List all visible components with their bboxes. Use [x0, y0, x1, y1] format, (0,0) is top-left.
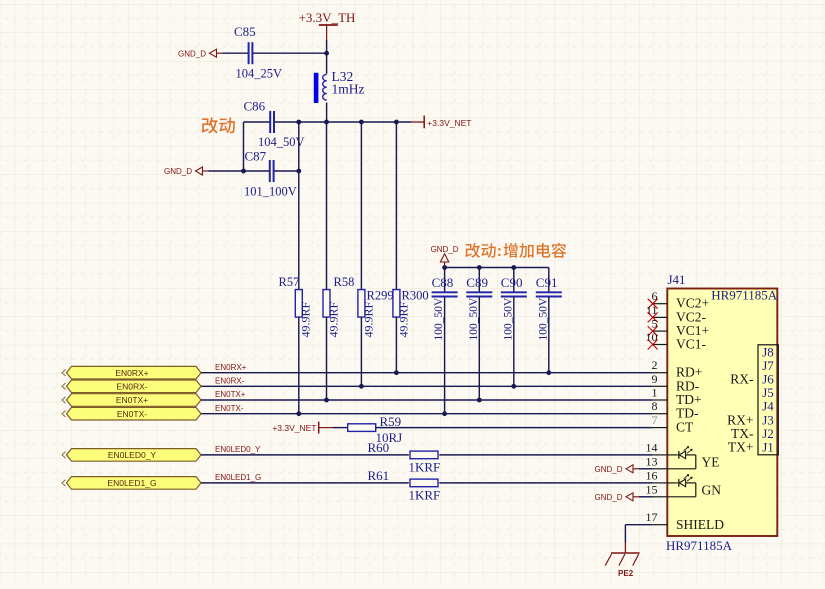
- annotation text 改动:增加电容 (orange): [465, 243, 566, 258]
- wire: [298, 317, 300, 414]
- svg-text:EN0TX-: EN0TX-: [117, 409, 147, 419]
- svg-text:1: 1: [652, 386, 658, 400]
- wire: [326, 317, 328, 400]
- svg-text:EN0RX-: EN0RX-: [116, 382, 147, 392]
- resistor R299: [358, 290, 365, 318]
- svg-text:7: 7: [652, 413, 658, 427]
- svg-text:R58: R58: [334, 275, 355, 289]
- svg-text:EN0TX+: EN0TX+: [215, 390, 246, 399]
- junction: [296, 169, 301, 174]
- junction: [394, 120, 399, 125]
- wire EN0TX+: [201, 399, 653, 401]
- port EN0RX-: [67, 380, 202, 393]
- svg-text:GND_D: GND_D: [178, 49, 206, 58]
- svg-text:8: 8: [652, 399, 658, 413]
- wire EN0RX-: [201, 385, 653, 387]
- wire: [201, 482, 409, 484]
- svg-text:EN0LED0_Y: EN0LED0_Y: [215, 445, 261, 454]
- junction: [477, 398, 482, 403]
- svg-text:1KRF: 1KRF: [409, 488, 441, 503]
- pin 6 (VC2+): [653, 303, 668, 305]
- svg-text:100_50V: 100_50V: [468, 297, 480, 341]
- resistor R57: [295, 290, 302, 318]
- wire: [298, 122, 300, 290]
- wire: [478, 297, 480, 400]
- svg-text:C87: C87: [245, 149, 267, 164]
- wire: [333, 427, 348, 429]
- wire: [513, 297, 515, 386]
- ground PE2: [624, 543, 626, 554]
- svg-text:R299: R299: [367, 289, 394, 303]
- LED GN: [667, 482, 678, 484]
- inner jack box: [758, 345, 778, 455]
- pin 11 (VC2-): [653, 316, 668, 318]
- junction: [359, 120, 364, 125]
- resistor R300: [393, 290, 400, 318]
- svg-text:R300: R300: [402, 289, 429, 303]
- junction: [296, 120, 301, 125]
- svg-text:GND_D: GND_D: [594, 493, 622, 502]
- wire: [625, 524, 652, 526]
- svg-text:EN0RX+: EN0RX+: [215, 363, 247, 372]
- pin 15: [653, 496, 668, 498]
- wire EN0RX+: [201, 372, 653, 374]
- svg-text:HR971185A: HR971185A: [711, 288, 778, 303]
- wire: [209, 170, 244, 172]
- svg-text:104_25V: 104_25V: [236, 67, 283, 81]
- junction: [324, 51, 329, 56]
- wire: [444, 268, 446, 293]
- svg-text:TD-: TD-: [676, 406, 699, 421]
- svg-text:C91: C91: [536, 275, 558, 290]
- svg-text:RX-: RX-: [730, 372, 754, 387]
- junction: [296, 411, 301, 416]
- port EN0TX+: [67, 394, 202, 407]
- svg-text:100_50V: 100_50V: [537, 297, 549, 341]
- svg-text:9: 9: [652, 372, 658, 386]
- junction: [442, 411, 447, 416]
- svg-text:49.9RF: 49.9RF: [361, 301, 375, 337]
- wire: [478, 268, 480, 293]
- wire: [639, 468, 653, 470]
- port EN0LED0_Y: [67, 449, 202, 462]
- svg-text:HR971185A: HR971185A: [666, 538, 733, 553]
- svg-text:PE2: PE2: [618, 569, 634, 578]
- wire: [548, 297, 550, 372]
- capacitor C88: [432, 291, 458, 293]
- svg-text:15: 15: [646, 482, 658, 496]
- svg-text:+3.3V_NET: +3.3V_NET: [427, 118, 471, 128]
- svg-text:TX+: TX+: [728, 440, 754, 455]
- svg-text:49.9RF: 49.9RF: [326, 301, 340, 337]
- svg-text:GND_D: GND_D: [594, 465, 622, 474]
- svg-text:2: 2: [652, 358, 658, 372]
- power port +3.3V_NET (rail): [411, 121, 425, 123]
- svg-text:YE: YE: [702, 454, 720, 469]
- pin 17 (SHIELD): [653, 524, 668, 526]
- svg-text:EN0LED1_G: EN0LED1_G: [107, 478, 156, 488]
- pin 10 (VC1-): [653, 344, 668, 346]
- svg-text:+3.3V_TH: +3.3V_TH: [299, 10, 356, 25]
- svg-text:EN0TX-: EN0TX-: [215, 404, 244, 413]
- svg-text:101_100V: 101_100V: [244, 184, 297, 198]
- port EN0RX+: [67, 366, 202, 379]
- port EN0LED1_G: [67, 477, 202, 490]
- capacitor C91: [536, 291, 562, 293]
- junction: [477, 265, 482, 270]
- svg-text:C86: C86: [244, 99, 266, 114]
- svg-text:C90: C90: [501, 275, 523, 290]
- svg-text:SHIELD: SHIELD: [676, 517, 724, 532]
- wire CT: [376, 427, 653, 429]
- connector J41 body: [667, 289, 777, 537]
- junction: [241, 169, 246, 174]
- capacitor C87: [269, 160, 271, 182]
- svg-text:GND_D: GND_D: [431, 245, 459, 254]
- svg-text:17: 17: [646, 510, 658, 524]
- svg-text:5: 5: [652, 317, 658, 331]
- svg-text:J41: J41: [668, 272, 686, 287]
- wire: [223, 52, 249, 54]
- wire: [326, 122, 328, 290]
- svg-text:C88: C88: [432, 275, 454, 290]
- svg-text:C89: C89: [466, 275, 488, 290]
- resistor R61: [410, 479, 438, 487]
- wire: [395, 317, 397, 372]
- svg-text:104_50V: 104_50V: [258, 135, 305, 149]
- junction: [511, 384, 516, 389]
- pin 13: [653, 468, 668, 470]
- svg-text:1KRF: 1KRF: [409, 460, 441, 475]
- pin 5 (VC1+): [653, 330, 668, 332]
- svg-text:GN: GN: [702, 482, 722, 497]
- capacitor C90: [501, 291, 527, 293]
- junction: [359, 384, 364, 389]
- capacitor C85: [248, 42, 250, 64]
- inductor L32: [326, 53, 328, 74]
- svg-text:EN0LED1_G: EN0LED1_G: [215, 473, 261, 482]
- svg-text:EN0RX+: EN0RX+: [115, 368, 148, 378]
- svg-text:49.9RF: 49.9RF: [396, 301, 410, 337]
- junction: [394, 370, 399, 375]
- svg-text:100_50V: 100_50V: [502, 297, 514, 341]
- wire: [274, 170, 299, 172]
- svg-text:R59: R59: [380, 414, 402, 429]
- wire: [639, 496, 653, 498]
- resistor R59: [348, 424, 376, 432]
- svg-text:C85: C85: [234, 24, 256, 39]
- svg-text:6: 6: [652, 289, 658, 303]
- pin 16: [653, 482, 668, 484]
- svg-text:J1: J1: [762, 440, 774, 455]
- wire: [326, 40, 328, 53]
- pin 1 (TD+): [653, 399, 668, 401]
- svg-text:16: 16: [646, 468, 658, 482]
- wire: [439, 454, 652, 456]
- wire: [201, 454, 409, 456]
- junction: [546, 370, 551, 375]
- resistor R58: [323, 290, 330, 318]
- svg-text:GND_D: GND_D: [164, 167, 192, 176]
- junction: [511, 265, 516, 270]
- wire: [360, 317, 362, 386]
- junction: [324, 120, 329, 125]
- junction: [442, 265, 447, 270]
- resistor R60: [410, 451, 438, 459]
- wire: [360, 122, 362, 290]
- pin 14: [653, 454, 668, 456]
- pin 2 (RD+): [653, 372, 668, 374]
- svg-text:CT: CT: [676, 420, 694, 435]
- svg-text:EN0LED0_Y: EN0LED0_Y: [108, 450, 157, 460]
- port EN0TX-: [67, 407, 202, 420]
- wire: [253, 52, 327, 54]
- pin 8 (TD-): [653, 413, 668, 415]
- wire +3.3V_NET rail: [244, 121, 270, 123]
- svg-text:14: 14: [646, 440, 658, 454]
- wire: [395, 122, 397, 290]
- wire: [513, 268, 515, 293]
- svg-text:R61: R61: [368, 468, 390, 483]
- capacitor C89: [466, 291, 492, 293]
- svg-text:VC1-: VC1-: [676, 337, 707, 352]
- pin 7 (CT): [653, 427, 668, 429]
- svg-text:100_50V: 100_50V: [433, 297, 445, 341]
- svg-text:R57: R57: [279, 275, 300, 289]
- wire EN0TX-: [201, 413, 653, 415]
- junction: [324, 398, 329, 403]
- svg-text:EN0RX-: EN0RX-: [215, 377, 245, 386]
- capacitor C86: [269, 111, 271, 133]
- wire gnd rail: [445, 267, 549, 269]
- svg-text:EN0TX+: EN0TX+: [116, 395, 148, 405]
- annotation text 改动 (orange): [202, 117, 235, 133]
- svg-text:49.9RF: 49.9RF: [299, 301, 313, 337]
- wire: [444, 297, 446, 414]
- svg-text:1mHz: 1mHz: [332, 82, 365, 97]
- pin 9 (RD-): [653, 385, 668, 387]
- wire: [439, 482, 652, 484]
- LED YE: [667, 454, 678, 456]
- svg-text:13: 13: [646, 454, 658, 468]
- svg-text:+3.3V_NET: +3.3V_NET: [272, 423, 316, 433]
- svg-text:R60: R60: [368, 440, 390, 455]
